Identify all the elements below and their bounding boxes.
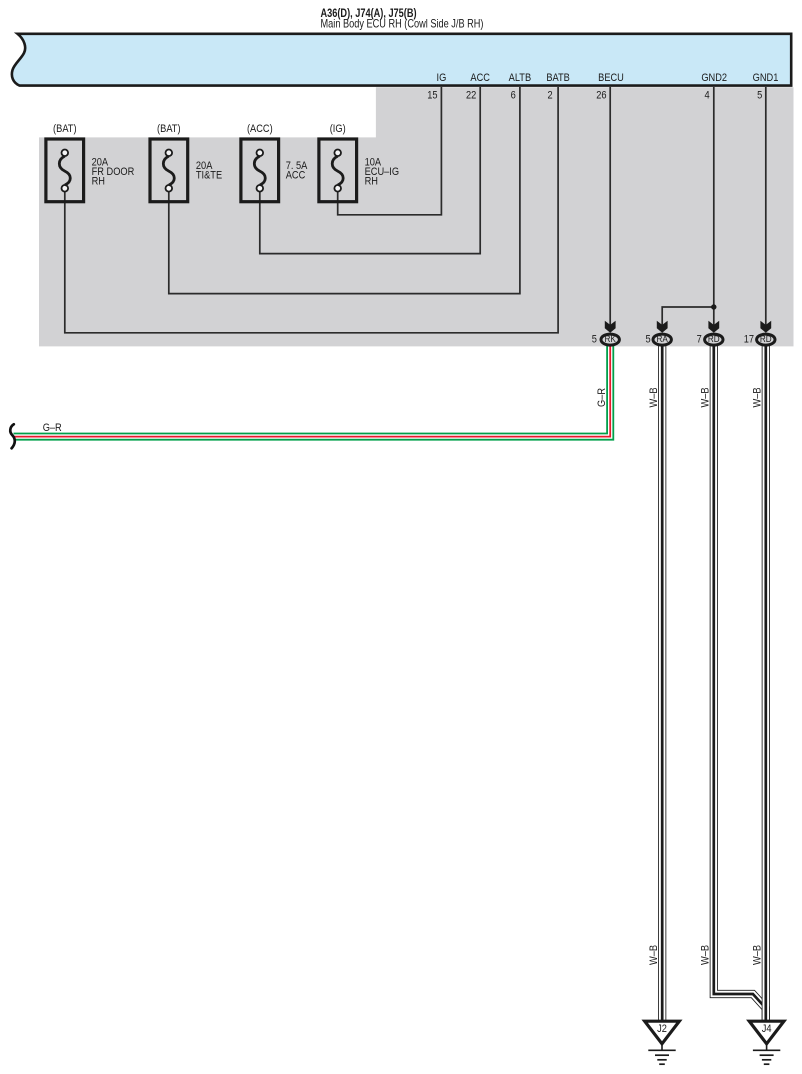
svg-text:ACC: ACC [286, 170, 306, 182]
svg-text:G–R: G–R [596, 388, 608, 407]
svg-text:7: 7 [697, 334, 702, 346]
svg-text:(BAT): (BAT) [157, 123, 180, 135]
svg-text:RH: RH [92, 176, 105, 188]
svg-text:17: 17 [744, 334, 755, 346]
svg-text:W–B: W–B [648, 945, 660, 965]
svg-text:6: 6 [511, 90, 516, 102]
svg-text:J4: J4 [762, 1023, 772, 1035]
svg-text:RK: RK [605, 333, 616, 344]
svg-text:5: 5 [757, 90, 762, 102]
svg-text:RH: RH [365, 176, 378, 188]
svg-text:5: 5 [645, 334, 650, 346]
svg-text:W–B: W–B [752, 387, 764, 407]
svg-text:(ACC): (ACC) [247, 123, 273, 135]
svg-text:(BAT): (BAT) [53, 123, 76, 135]
svg-text:W–B: W–B [700, 387, 712, 407]
svg-text:Main Body ECU RH (Cowl Side J/: Main Body ECU RH (Cowl Side J/B RH) [321, 18, 484, 30]
svg-text:RA: RA [657, 333, 668, 344]
svg-text:4: 4 [705, 90, 710, 102]
svg-text:22: 22 [466, 90, 477, 102]
svg-text:RD: RD [708, 333, 720, 344]
svg-text:RD: RD [760, 333, 772, 344]
svg-text:GND1: GND1 [753, 72, 779, 84]
svg-text:W–B: W–B [752, 945, 764, 965]
svg-text:G–R: G–R [43, 422, 62, 434]
svg-text:ACC: ACC [470, 72, 490, 84]
svg-text:BECU: BECU [598, 72, 624, 84]
svg-text:GND2: GND2 [701, 72, 727, 84]
svg-text:IG: IG [437, 72, 447, 84]
svg-text:TI&TE: TI&TE [196, 170, 222, 182]
svg-text:J2: J2 [657, 1023, 667, 1035]
svg-text:ALTB: ALTB [509, 72, 532, 84]
svg-text:BATB: BATB [546, 72, 570, 84]
svg-text:15: 15 [427, 90, 438, 102]
svg-text:26: 26 [596, 90, 607, 102]
svg-text:(IG): (IG) [330, 123, 346, 135]
svg-text:2: 2 [548, 90, 553, 102]
svg-text:5: 5 [592, 334, 597, 346]
svg-text:W–B: W–B [648, 387, 660, 407]
svg-text:W–B: W–B [700, 945, 712, 965]
